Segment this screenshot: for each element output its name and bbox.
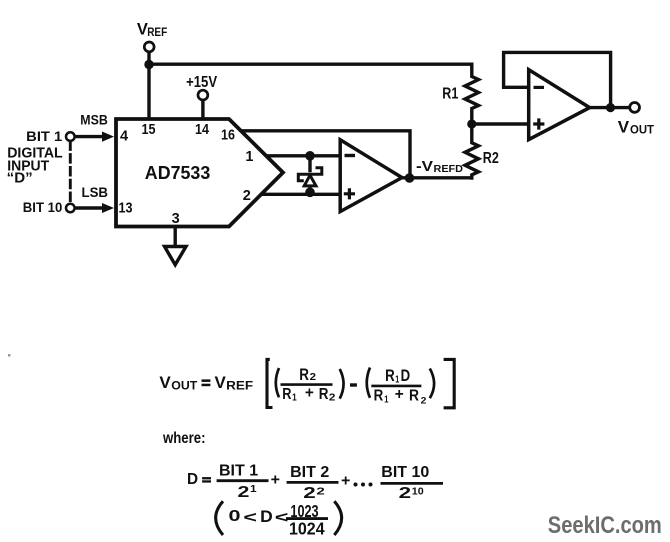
svg-text:R1: R1 xyxy=(442,85,458,102)
svg-text:2: 2 xyxy=(303,485,316,502)
svg-text:V: V xyxy=(618,117,630,136)
svg-text:V: V xyxy=(159,373,171,392)
svg-text:2: 2 xyxy=(329,391,336,403)
svg-text:V: V xyxy=(215,373,227,392)
svg-text:REF: REF xyxy=(226,379,253,393)
svg-text:2: 2 xyxy=(310,371,317,383)
svg-text:OUT: OUT xyxy=(171,379,198,393)
svg-text:16: 16 xyxy=(221,128,235,144)
svg-text:R: R xyxy=(319,386,329,403)
svg-text:4: 4 xyxy=(120,129,128,145)
svg-text:D: D xyxy=(260,508,273,526)
svg-text:BIT 1: BIT 1 xyxy=(219,463,258,480)
svg-text:-V: -V xyxy=(416,158,433,175)
svg-text:1: 1 xyxy=(245,149,253,165)
svg-text:R: R xyxy=(374,388,384,405)
svg-text:“D”: “D” xyxy=(7,171,33,187)
svg-text:10: 10 xyxy=(412,485,424,497)
svg-text:2: 2 xyxy=(316,486,325,497)
svg-text:<: < xyxy=(243,509,257,526)
svg-text:BIT 10: BIT 10 xyxy=(381,464,429,481)
svg-text:D: D xyxy=(401,366,411,385)
svg-text:1: 1 xyxy=(395,374,399,386)
svg-text:R: R xyxy=(385,366,395,385)
svg-text:+: + xyxy=(305,384,314,401)
svg-text:BIT 2: BIT 2 xyxy=(290,464,329,481)
svg-text:AD7533: AD7533 xyxy=(145,163,211,183)
svg-text:1024: 1024 xyxy=(289,519,325,539)
svg-text:1: 1 xyxy=(250,484,257,495)
svg-text:1: 1 xyxy=(384,395,389,406)
svg-text:R: R xyxy=(282,386,292,403)
svg-text:+15V: +15V xyxy=(186,74,217,91)
svg-text:R: R xyxy=(409,388,419,405)
svg-text:13: 13 xyxy=(119,201,133,217)
svg-text:0: 0 xyxy=(229,508,241,525)
svg-text:OUT: OUT xyxy=(630,125,654,137)
svg-text:2: 2 xyxy=(243,188,251,204)
svg-text:LSB: LSB xyxy=(82,185,109,200)
svg-text:2: 2 xyxy=(421,396,427,407)
svg-text:D: D xyxy=(187,471,198,488)
svg-text:1: 1 xyxy=(292,393,297,404)
svg-text:15: 15 xyxy=(142,122,156,138)
svg-text:R2: R2 xyxy=(483,150,499,167)
svg-text:2: 2 xyxy=(399,485,412,502)
svg-text:+: + xyxy=(395,386,404,403)
svg-text:R: R xyxy=(299,365,309,384)
svg-text:where:: where: xyxy=(162,430,205,447)
svg-text:BIT 10: BIT 10 xyxy=(23,200,63,215)
svg-text:+: + xyxy=(341,473,350,490)
svg-text:3: 3 xyxy=(172,211,180,227)
svg-text:SeekIC.com: SeekIC.com xyxy=(548,512,662,539)
svg-text:2: 2 xyxy=(238,484,250,501)
svg-text:14: 14 xyxy=(195,122,209,138)
svg-text:REFD: REFD xyxy=(434,163,464,175)
svg-text:MSB: MSB xyxy=(80,112,108,127)
svg-text:+: + xyxy=(271,471,280,488)
svg-text:BIT 1: BIT 1 xyxy=(26,128,62,144)
svg-text:REF: REF xyxy=(147,27,167,39)
